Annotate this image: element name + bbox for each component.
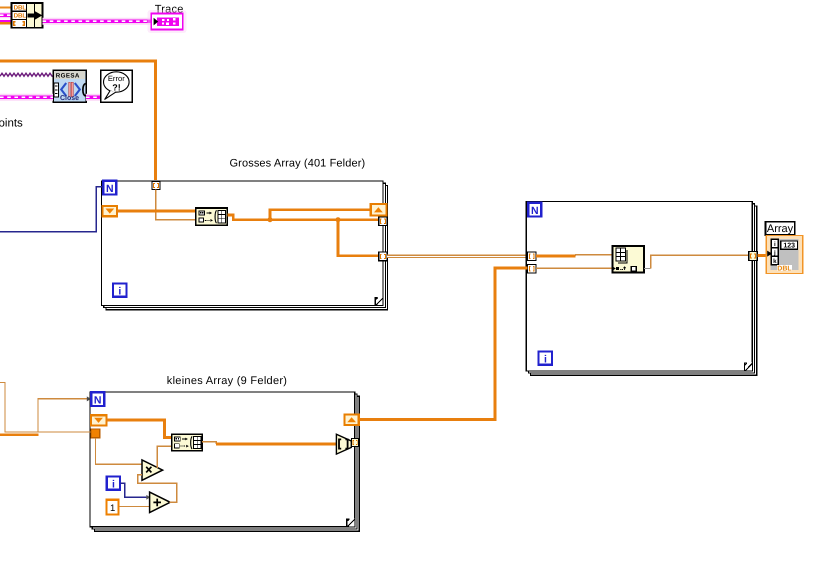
wire branch to auto-index output tunnel <box>270 210 372 220</box>
node Build Array (loop 3) <box>172 434 203 451</box>
svg-text:?!: ?! <box>112 82 121 92</box>
svg-text:DBL: DBL <box>14 13 27 20</box>
wire DBL scalar into bundle row1 <box>0 7 12 9</box>
loop 3 iteration terminal i <box>107 476 120 490</box>
label box Array <box>766 222 795 235</box>
node Index Array (loop 2) <box>613 246 644 273</box>
svg-text:Array: Array <box>767 223 794 235</box>
junction dot A <box>268 217 273 222</box>
for-loop 2 resize corner <box>744 363 752 371</box>
subVI Simple Error Handler <box>101 70 133 102</box>
svg-text:N: N <box>106 183 114 195</box>
wire blue from i to add node <box>120 483 146 497</box>
loop 1 iteration terminal i <box>113 283 126 297</box>
svg-text:k: k <box>773 258 777 265</box>
loop 1 right tunnel lower (array) <box>379 252 387 261</box>
for-loop 1 border <box>102 181 388 310</box>
loop 2 left tunnel upper (array in) <box>528 252 536 261</box>
loop 3 count terminal N <box>91 392 104 406</box>
for-loop 3 resize corner <box>346 518 354 526</box>
indicator Array (1D DBL) <box>766 236 803 274</box>
label Grosses Array (401 Felder) <box>230 158 366 170</box>
node array-to-cluster converter <box>336 434 351 454</box>
wire cluster (magenta dashed) into bundle row2 <box>0 12 12 18</box>
svg-text:DBL: DBL <box>777 266 792 273</box>
wire DBL array loop3 to loop2 lower tunnel <box>359 268 528 420</box>
svg-text:oints: oints <box>0 117 23 129</box>
wire from lower tunnel to node2 <box>536 267 613 269</box>
node multiply <box>142 460 163 480</box>
wire DBL array (thick orange) into bundle row3 <box>0 22 12 25</box>
svg-text:DBL: DBL <box>14 4 27 11</box>
svg-text:N: N <box>531 205 539 217</box>
wire add output wraps to multiply lower input <box>138 475 177 503</box>
wire from upper tunnel to node2 <box>536 255 613 257</box>
svg-text:Grosses Array (401 Felder): Grosses Array (401 Felder) <box>230 158 366 170</box>
label Trace <box>155 4 184 16</box>
loop 2 iteration terminal i <box>539 351 552 365</box>
svg-text:1: 1 <box>110 503 115 514</box>
loop 1 right tunnel upper (array) <box>379 217 387 225</box>
wire error cluster (magenta dashed) RGESA to Error <box>86 94 101 101</box>
for-loop 2 border <box>526 202 757 376</box>
loop 2 left tunnel lower (array in) <box>528 264 536 273</box>
coercion arrow at add input <box>146 495 150 500</box>
svg-text:N: N <box>94 394 102 406</box>
wire VISA reference (purple zigzag) <box>0 73 53 76</box>
loop 3 right tunnel at converter <box>352 439 359 447</box>
svg-text:i: i <box>774 241 776 248</box>
svg-text:Close: Close <box>60 94 79 102</box>
wire cluster output (magenta dashed) bundle to Trace <box>43 18 152 25</box>
wire DBL from index tunnel to node3 <box>106 420 171 438</box>
svg-text:j: j <box>773 249 776 256</box>
for-loop 1 resize corner <box>375 297 383 305</box>
label Points (clipped) <box>0 117 23 129</box>
loop 3 auto-index input tunnel <box>91 415 106 425</box>
loop 1 auto-index output tunnel <box>371 204 387 215</box>
label kleines Array (9 Felder) <box>167 375 287 387</box>
wire from scalar tunnel down to multiply <box>96 438 143 464</box>
svg-text:i: i <box>118 286 121 298</box>
wire node3 output thick run to converter <box>216 442 337 445</box>
wire branch down to lower right tunnel <box>338 220 379 256</box>
svg-text:123: 123 <box>783 243 795 250</box>
svg-text:RGESA: RGESA <box>56 73 80 80</box>
wire scalar DBL from left edge down <box>0 383 91 433</box>
junction dot B <box>336 217 341 222</box>
node add <box>150 492 171 512</box>
loop 1 auto-index input tunnel <box>103 206 118 216</box>
loop 2 count terminal N <box>528 203 541 217</box>
for-loop 3 border <box>90 392 359 531</box>
coercion arrow at N input <box>87 396 91 401</box>
wire tunnel to Array indicator <box>757 254 766 257</box>
wire array stub at left edge <box>0 434 39 436</box>
svg-text:i: i <box>112 479 115 491</box>
wire branch up to N terminal <box>38 399 87 432</box>
wire DBL array feed to loop1 top tunnel <box>0 61 156 180</box>
wire thin from top tunnel down to node1 lower input <box>156 190 196 220</box>
bundle node U1 <box>12 3 43 28</box>
wire node2 output stub (grey) <box>644 267 651 269</box>
Trace chart terminal indicator <box>148 10 187 33</box>
wire node2 output to right tunnel <box>651 255 749 268</box>
wire blue from N to left edge <box>0 187 103 232</box>
loop 3 scalar tunnel (solid orange) <box>91 429 100 438</box>
subVI RGESA Close <box>53 70 86 102</box>
svg-text:i: i <box>544 354 547 366</box>
loop 1 top tunnel (array) <box>152 182 160 190</box>
loop 1 count terminal N <box>103 181 116 195</box>
wire error cluster (magenta dashed) left segment <box>0 94 53 101</box>
wire multiply output up to node3 lower input <box>157 446 171 468</box>
wire node3 output <box>202 442 216 444</box>
wire from constant 1 to add node <box>119 506 150 508</box>
svg-text:kleines Array (9 Felder): kleines Array (9 Felder) <box>167 375 287 387</box>
loop 2 right tunnel (out) <box>749 252 758 261</box>
wire node1 output run <box>227 215 379 220</box>
constant 1 <box>107 500 119 515</box>
loop 3 auto-index output tunnel <box>344 414 358 425</box>
wire 1D array loop1 to loop2 (double line) <box>387 255 528 258</box>
node Build Array (loop 1) <box>196 208 228 225</box>
wire magenta into bundle row3 <box>0 20 12 22</box>
wire DBL from index tunnel to node1 <box>117 210 196 213</box>
